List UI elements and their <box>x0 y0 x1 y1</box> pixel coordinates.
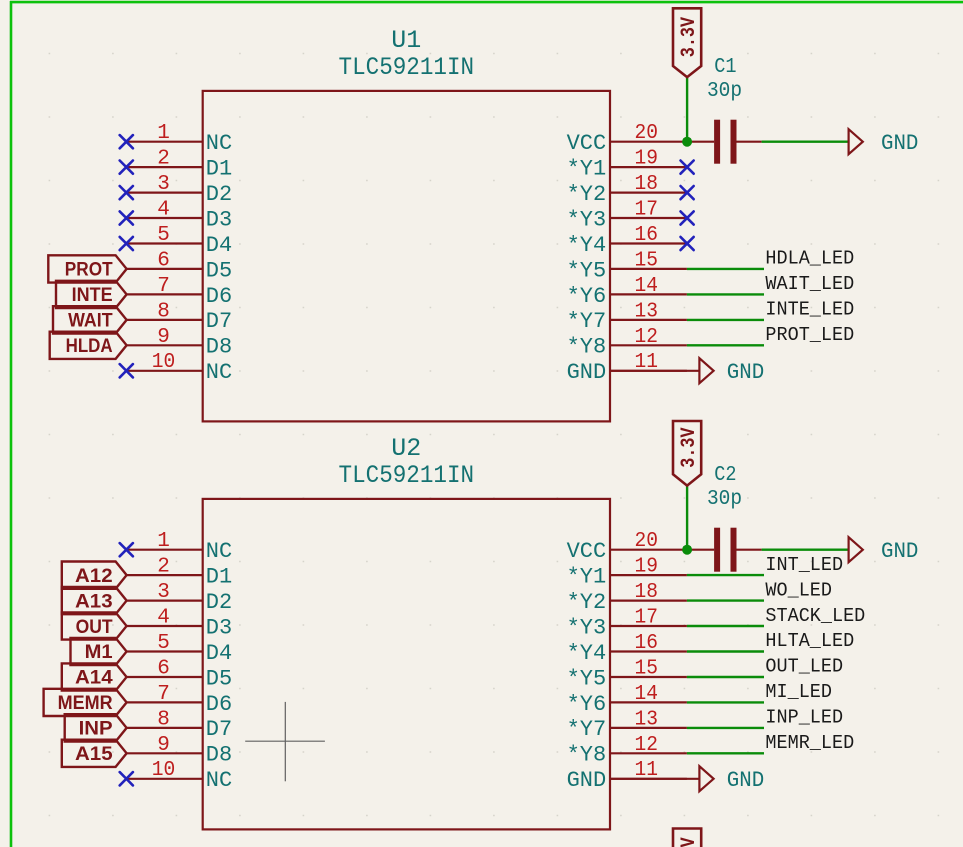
wire net INTE_LED <box>687 319 764 321</box>
U2 pin 18 (*Y2) <box>567 581 687 615</box>
svg-text:18: 18 <box>635 581 659 604</box>
svg-text:3.3V: 3.3V <box>678 837 701 847</box>
svg-text:*Y4: *Y4 <box>567 641 607 666</box>
svg-text:8: 8 <box>157 708 170 731</box>
svg-text:TLC59211IN: TLC59211IN <box>339 53 475 82</box>
svg-text:NC: NC <box>206 539 232 564</box>
svg-text:NC: NC <box>206 131 232 156</box>
svg-text:INTE: INTE <box>72 285 113 306</box>
svg-text:OUT: OUT <box>76 617 113 638</box>
svg-text:D3: D3 <box>206 207 232 232</box>
global label A15 <box>62 740 127 767</box>
ground flag PWR02 <box>849 129 919 156</box>
svg-text:20: 20 <box>635 122 659 145</box>
svg-text:HDLA_LED: HDLA_LED <box>765 248 854 270</box>
ground flag PWR03 <box>699 358 764 385</box>
svg-text:MEMR: MEMR <box>58 693 113 714</box>
svg-text:D7: D7 <box>206 717 232 742</box>
svg-text:D1: D1 <box>206 565 232 590</box>
U1 pin 9 (D8) <box>127 326 233 360</box>
U2 pin 12 (*Y8) <box>567 734 687 768</box>
wire net MEMR_LED <box>687 752 764 754</box>
svg-text:13: 13 <box>635 708 659 731</box>
svg-text:14: 14 <box>635 683 659 706</box>
svg-text:15: 15 <box>635 249 659 272</box>
svg-text:GND: GND <box>881 131 918 156</box>
svg-text:C2: C2 <box>714 464 736 487</box>
svg-text:*Y6: *Y6 <box>567 692 607 717</box>
wire C1 to GND <box>762 140 849 142</box>
svg-text:D7: D7 <box>206 309 232 334</box>
U1 pin 14 (*Y6) <box>567 275 687 309</box>
svg-text:8: 8 <box>157 300 170 323</box>
U1 pin 12 (*Y8) <box>567 326 687 360</box>
svg-text:D8: D8 <box>206 335 232 360</box>
wire net OUT_LED <box>687 676 764 678</box>
svg-text:GND: GND <box>567 360 607 385</box>
svg-text:MEMR_LED: MEMR_LED <box>765 732 854 754</box>
svg-text:U2: U2 <box>391 434 421 463</box>
svg-text:17: 17 <box>635 607 659 630</box>
U1 pin 5 (D4) <box>127 224 233 258</box>
wire VCC (3V3 rail to C2) <box>686 486 688 550</box>
U1 pin 4 (D3) <box>127 199 233 233</box>
no-connect X U1 pin 4 <box>120 211 133 224</box>
U2 pin 8 (D7) <box>127 708 233 742</box>
svg-text:12: 12 <box>635 734 659 757</box>
global label WAIT <box>53 306 127 333</box>
svg-text:4: 4 <box>157 607 170 630</box>
svg-text:5: 5 <box>157 632 170 655</box>
svg-text:6: 6 <box>157 658 170 681</box>
svg-text:*Y3: *Y3 <box>567 207 607 232</box>
power flag 3.3V PWR01 <box>673 8 701 77</box>
U1 pin 17 (*Y3) <box>567 199 687 233</box>
svg-text:C1: C1 <box>714 56 736 79</box>
U1 pin 19 (*Y1) <box>567 148 687 182</box>
svg-text:U1: U1 <box>391 26 421 55</box>
svg-text:TLC59211IN: TLC59211IN <box>339 461 475 490</box>
wire net WO_LED <box>687 599 764 601</box>
svg-text:D2: D2 <box>206 182 232 207</box>
svg-text:7: 7 <box>157 275 170 298</box>
svg-text:PROT: PROT <box>65 260 113 281</box>
svg-text:MI_LED: MI_LED <box>765 681 832 703</box>
power flag 3.3V PWR04 <box>673 421 701 486</box>
svg-text:3.3V: 3.3V <box>678 427 701 467</box>
U2 pin 14 (*Y6) <box>567 683 687 717</box>
IC U1 body <box>203 91 610 422</box>
ground flag PWR05 <box>849 537 919 564</box>
U1 pin 15 (*Y5) <box>567 249 687 283</box>
svg-text:INP_LED: INP_LED <box>765 707 843 729</box>
svg-text:D2: D2 <box>206 590 232 615</box>
U2 pin 17 (*Y3) <box>567 607 687 641</box>
svg-text:STACK_LED: STACK_LED <box>765 605 865 627</box>
no-connect X U1 pin 19 <box>681 161 694 174</box>
crosshair marker <box>245 702 325 781</box>
U2 pin 4 (D3) <box>127 607 233 641</box>
U1 pin 3 (D2) <box>127 173 233 207</box>
U2 pin 6 (D5) <box>127 658 233 692</box>
wire net INP_LED <box>687 727 764 729</box>
U2 pin 5 (D4) <box>127 632 233 666</box>
svg-text:A15: A15 <box>75 744 113 765</box>
U1 pin 16 (*Y4) <box>567 224 687 258</box>
svg-text:GND: GND <box>727 360 764 385</box>
svg-text:INT_LED: INT_LED <box>765 554 843 576</box>
svg-text:*Y6: *Y6 <box>567 284 607 309</box>
U1 pin 13 (*Y7) <box>567 300 687 334</box>
svg-text:D1: D1 <box>206 157 232 182</box>
svg-text:WO_LED: WO_LED <box>765 579 832 601</box>
U2 pin 2 (D1) <box>127 556 233 590</box>
wire pin11 to ground <box>610 370 699 372</box>
wire net INT_LED <box>687 574 764 576</box>
svg-text:17: 17 <box>635 199 659 222</box>
svg-text:A14: A14 <box>75 668 113 689</box>
no-connect X U1 pin 18 <box>681 186 694 199</box>
global label INTE <box>56 281 127 308</box>
svg-text:2: 2 <box>157 556 170 579</box>
power flag 3.3V PWR07 (partial) <box>673 829 701 847</box>
IC U2 body <box>203 499 610 830</box>
wire VCC (3V3 rail to C1) <box>686 77 688 142</box>
svg-text:6: 6 <box>157 249 170 272</box>
svg-text:*Y5: *Y5 <box>567 666 607 691</box>
no-connect X U1 pin 5 <box>120 237 133 250</box>
svg-text:14: 14 <box>635 275 659 298</box>
U2 pin 7 (D6) <box>127 683 233 717</box>
U1 pin 18 (*Y2) <box>567 173 687 207</box>
svg-text:D6: D6 <box>206 284 232 309</box>
U1 pin 10 (NC) <box>127 351 233 385</box>
svg-text:D8: D8 <box>206 743 232 768</box>
svg-text:2: 2 <box>157 148 170 171</box>
svg-text:13: 13 <box>635 300 659 323</box>
svg-text:M1: M1 <box>85 642 113 663</box>
wire net HLTA_LED <box>687 650 764 652</box>
wire net STACK_LED <box>687 625 764 627</box>
svg-text:3.3V: 3.3V <box>678 17 701 57</box>
U2 pin 9 (D8) <box>127 734 233 768</box>
U1 pin 20 (VCC) <box>567 122 687 156</box>
svg-text:18: 18 <box>635 173 659 196</box>
svg-text:INP: INP <box>79 719 113 740</box>
svg-text:*Y4: *Y4 <box>567 233 607 258</box>
U1 pin 2 (D1) <box>127 148 233 182</box>
wire C2 to GND <box>762 549 849 551</box>
svg-text:4: 4 <box>157 199 170 222</box>
U1 pin 6 (D5) <box>127 249 233 283</box>
svg-text:D4: D4 <box>206 233 232 258</box>
svg-text:A12: A12 <box>75 566 113 587</box>
svg-text:30p: 30p <box>707 80 742 103</box>
no-connect X U1 pin 16 <box>681 237 694 250</box>
U2 pin 16 (*Y4) <box>567 632 687 666</box>
no-connect X U2 pin 10 <box>120 772 133 785</box>
global label M1 <box>71 638 127 665</box>
svg-text:19: 19 <box>635 556 659 579</box>
svg-text:D6: D6 <box>206 692 232 717</box>
no-connect X U1 pin 2 <box>120 161 133 174</box>
svg-text:15: 15 <box>635 658 659 681</box>
wire net HDLA_LED <box>687 268 764 270</box>
svg-text:*Y7: *Y7 <box>567 717 607 742</box>
svg-text:12: 12 <box>635 326 659 349</box>
svg-text:*Y8: *Y8 <box>567 335 607 360</box>
wire net WAIT_LED <box>687 293 764 295</box>
svg-text:INTE_LED: INTE_LED <box>765 299 854 321</box>
global label OUT <box>62 612 127 639</box>
no-connect X U2 pin 1 <box>120 543 133 556</box>
svg-text:5: 5 <box>157 224 170 247</box>
svg-text:NC: NC <box>206 768 232 793</box>
no-connect X U1 pin 17 <box>681 211 694 224</box>
svg-text:3: 3 <box>157 173 170 196</box>
svg-text:10: 10 <box>152 351 176 374</box>
wire pin11 to ground (U2) <box>610 778 699 780</box>
svg-text:GND: GND <box>567 768 607 793</box>
svg-text:GND: GND <box>881 539 918 564</box>
svg-text:PROT_LED: PROT_LED <box>765 324 854 346</box>
svg-text:9: 9 <box>157 734 170 757</box>
global label A13 <box>62 587 127 614</box>
junction VCC/C1 <box>682 137 692 147</box>
capacitor C2 <box>687 464 762 572</box>
U2 pin 11 (GND) <box>567 759 687 793</box>
svg-text:HLDA: HLDA <box>66 336 113 357</box>
svg-text:30p: 30p <box>707 488 742 511</box>
U2 pin 20 (VCC) <box>567 530 687 564</box>
U2 pin 15 (*Y5) <box>567 658 687 692</box>
U2 pin 3 (D2) <box>127 581 233 615</box>
svg-text:*Y2: *Y2 <box>567 590 607 615</box>
svg-text:WAIT: WAIT <box>68 311 113 332</box>
svg-text:*Y1: *Y1 <box>567 157 607 182</box>
ground flag PWR06 <box>699 766 764 793</box>
no-connect X U1 pin 3 <box>120 186 133 199</box>
U1 pin 8 (D7) <box>127 300 233 334</box>
svg-text:20: 20 <box>635 530 659 553</box>
svg-text:NC: NC <box>206 360 232 385</box>
U1 pin 7 (D6) <box>127 275 233 309</box>
svg-text:D5: D5 <box>206 258 232 283</box>
U2 pin 1 (NC) <box>127 530 233 564</box>
svg-text:16: 16 <box>635 224 659 247</box>
svg-text:WAIT_LED: WAIT_LED <box>765 273 854 295</box>
svg-text:D5: D5 <box>206 666 232 691</box>
svg-text:*Y1: *Y1 <box>567 565 607 590</box>
svg-text:*Y3: *Y3 <box>567 615 607 640</box>
U1 pin 11 (GND) <box>567 351 687 385</box>
svg-text:10: 10 <box>152 759 176 782</box>
svg-text:1: 1 <box>157 122 170 145</box>
svg-text:16: 16 <box>635 632 659 655</box>
svg-text:VCC: VCC <box>567 131 607 156</box>
svg-text:9: 9 <box>157 326 170 349</box>
svg-text:HLTA_LED: HLTA_LED <box>765 630 854 652</box>
svg-text:OUT_LED: OUT_LED <box>765 656 843 678</box>
capacitor C1 <box>687 56 762 164</box>
no-connect X U1 pin 1 <box>120 135 133 148</box>
U2 pin 13 (*Y7) <box>567 708 687 742</box>
global label INP <box>65 714 127 741</box>
global label PROT <box>48 255 126 282</box>
svg-text:*Y8: *Y8 <box>567 743 607 768</box>
junction VCC/C2 <box>682 545 692 555</box>
U1 pin 1 (NC) <box>127 122 233 156</box>
svg-text:3: 3 <box>157 581 170 604</box>
global label MEMR <box>44 689 127 716</box>
wire net PROT_LED <box>687 344 764 346</box>
U2 pin 19 (*Y1) <box>567 556 687 590</box>
svg-text:D3: D3 <box>206 615 232 640</box>
svg-text:1: 1 <box>157 530 170 553</box>
svg-text:GND: GND <box>727 768 764 793</box>
wire net MI_LED <box>687 701 764 703</box>
global label A12 <box>62 562 127 589</box>
svg-text:7: 7 <box>157 683 170 706</box>
U2 pin 10 (NC) <box>127 759 233 793</box>
global label A14 <box>62 663 127 690</box>
svg-text:A13: A13 <box>75 591 113 612</box>
svg-text:*Y5: *Y5 <box>567 258 607 283</box>
svg-text:VCC: VCC <box>567 539 607 564</box>
global label HLDA <box>50 332 127 359</box>
svg-text:19: 19 <box>635 148 659 171</box>
svg-text:*Y7: *Y7 <box>567 309 607 334</box>
svg-text:D4: D4 <box>206 641 232 666</box>
svg-text:*Y2: *Y2 <box>567 182 607 207</box>
no-connect X U1 pin 10 <box>120 364 133 377</box>
